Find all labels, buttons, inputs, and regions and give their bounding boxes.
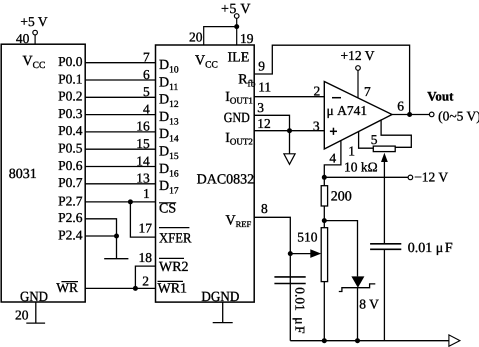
offset null pin 5 wire — [381, 120, 411, 147]
svg-text:+12 V: +12 V — [341, 48, 375, 63]
svg-text:P0.1: P0.1 — [58, 71, 82, 86]
wire VREF — [254, 217, 290, 253]
svg-text:P0.0: P0.0 — [58, 54, 83, 69]
svg-text:(0~5 V): (0~5 V) — [438, 108, 479, 123]
svg-text:11: 11 — [258, 79, 271, 94]
ground P2 lines — [104, 236, 128, 259]
wire 200 bottom — [323, 206, 325, 228]
output wire pin6 — [392, 114, 429, 116]
plus input sign — [330, 130, 337, 132]
wire P0.0-DI0 — [85, 62, 155, 64]
+5 V supply for DAC — [204, 14, 239, 45]
node +5V DAC — [234, 24, 239, 29]
svg-text:510: 510 — [297, 230, 318, 245]
wire P2.6 — [85, 219, 116, 236]
svg-text:WR: WR — [56, 280, 78, 295]
wire IOUT2 to op-amp pin3 — [254, 130, 324, 132]
wire junction to WR2 — [135, 266, 155, 288]
overline WR — [61, 281, 78, 283]
wire to pin 20 — [204, 27, 237, 45]
wire junction to XFER — [130, 202, 155, 237]
8031 box — [1, 44, 85, 302]
wire pin7 — [357, 70, 359, 98]
svg-text:18: 18 — [139, 250, 153, 265]
svg-text:DAC0832: DAC0832 — [197, 173, 255, 188]
svg-text:1: 1 — [348, 143, 355, 158]
analog ground arrow — [289, 131, 291, 154]
potentiometer 510 box — [321, 228, 327, 282]
zener diode 8V — [351, 276, 364, 287]
node 510/rail — [322, 338, 327, 343]
+5 V supply for 8031 pin 40 — [33, 30, 38, 44]
wire zener branch top — [324, 221, 357, 277]
svg-text:Vout: Vout — [427, 89, 454, 104]
wire cap C2 vertical — [383, 249, 385, 340]
svg-text:VREF: VREF — [226, 214, 252, 230]
svg-text:9: 9 — [258, 58, 265, 73]
svg-text:14: 14 — [136, 153, 150, 168]
svg-text:13: 13 — [136, 171, 150, 186]
svg-text:4: 4 — [329, 150, 336, 165]
svg-text:P0.3: P0.3 — [58, 106, 83, 121]
svg-text:P0.5: P0.5 — [58, 141, 83, 156]
svg-text:0.01 μF: 0.01 μF — [408, 241, 453, 256]
wire WR to WR1 — [85, 287, 155, 289]
ground 8031 pin 20 — [26, 302, 45, 323]
capacitor C1 0.01uF plates — [274, 277, 305, 284]
svg-text:WR2: WR2 — [159, 260, 189, 275]
svg-text:P2.7: P2.7 — [58, 193, 83, 208]
svg-text:0.01 μF: 0.01 μF — [293, 287, 308, 334]
wire op-amp pin4 to -12V rail — [324, 141, 341, 178]
wire — [236, 18, 238, 45]
wire P0.7-DI7 — [85, 183, 155, 185]
svg-text:2: 2 — [142, 274, 149, 289]
svg-text:D15: D15 — [159, 145, 179, 163]
svg-text:−12 V: −12 V — [414, 169, 448, 184]
wire P0.4-DI4 — [85, 131, 155, 133]
svg-text:2: 2 — [314, 83, 321, 98]
wire IOUT1 to op-amp pin2 — [254, 96, 324, 98]
rail arrow — [449, 335, 460, 346]
svg-text:VCC: VCC — [23, 54, 46, 71]
svg-text:IOUT2: IOUT2 — [225, 131, 253, 147]
node WR junction — [133, 286, 138, 291]
port labels P0.0-P0.7 — [56, 54, 82, 295]
wire VREF node down — [289, 254, 291, 341]
node P2.4 junction — [114, 234, 119, 239]
510 wiper arrow — [290, 253, 312, 255]
svg-text:12: 12 — [257, 116, 271, 131]
node P2.7/CS junction — [128, 199, 133, 204]
svg-text:3: 3 — [313, 118, 320, 133]
svg-text:XFER: XFER — [159, 232, 192, 247]
svg-text:15: 15 — [136, 136, 150, 151]
potentiometer wiper arrow — [383, 160, 385, 244]
svg-text:5: 5 — [143, 84, 150, 99]
potentiometer 10k box — [373, 146, 395, 152]
node 200/510/zener — [322, 218, 327, 223]
+12V supply — [356, 66, 361, 98]
wire P2.4 — [85, 235, 116, 237]
svg-text:D13: D13 — [159, 110, 179, 128]
terminal -12V — [408, 175, 413, 180]
svg-text:20: 20 — [15, 308, 29, 323]
svg-text:40: 40 — [16, 31, 30, 46]
svg-text:P2.6: P2.6 — [58, 210, 83, 225]
node zener/rail — [355, 338, 360, 343]
svg-text:Rfb: Rfb — [238, 72, 256, 89]
svg-text:VCC: VCC — [195, 54, 218, 71]
svg-text:3: 3 — [257, 100, 264, 115]
svg-text:DGND: DGND — [201, 290, 239, 305]
DAC0832 box — [156, 45, 255, 302]
svg-text:19: 19 — [240, 31, 254, 46]
svg-text:200: 200 — [331, 189, 352, 204]
svg-text:8 V: 8 V — [359, 297, 379, 312]
D input labels — [159, 58, 179, 197]
svg-text:10 kΩ: 10 kΩ — [344, 160, 378, 175]
svg-text:P0.7: P0.7 — [58, 175, 83, 190]
wire P0.3-DI3 — [85, 114, 155, 116]
wire P0.1-DI1 — [85, 79, 155, 81]
svg-text:μ A741: μ A741 — [327, 103, 368, 118]
svg-text:7: 7 — [364, 84, 371, 99]
wire P0.5-DI5 — [85, 148, 155, 150]
bottom rail — [290, 340, 449, 342]
svg-text:D10: D10 — [159, 58, 179, 76]
wire P0.2-DI2 — [85, 96, 155, 98]
wire 200 top — [323, 177, 325, 185]
offset null pin 1 wire — [359, 132, 374, 149]
svg-text:5: 5 — [371, 132, 378, 147]
minus input sign — [332, 97, 341, 99]
svg-text:16: 16 — [136, 119, 150, 134]
svg-text:20: 20 — [189, 30, 203, 45]
svg-text:ILE: ILE — [228, 51, 250, 66]
svg-text:D11: D11 — [159, 75, 179, 93]
svg-text:+5 V: +5 V — [20, 14, 47, 29]
wire Rfb feedback loop — [254, 45, 409, 114]
terminal +12V — [356, 66, 361, 71]
resistor 200 — [321, 186, 327, 206]
svg-text:P2.4: P2.4 — [58, 227, 83, 242]
svg-text:P0.6: P0.6 — [58, 158, 83, 173]
-12V rail — [324, 176, 408, 178]
wire — [34, 35, 36, 44]
node IOUT2/GND — [287, 128, 292, 133]
wire 510 bottom to rail — [323, 282, 325, 341]
wire GND pin3 of DAC — [254, 115, 289, 130]
node VREF/wiper — [288, 251, 293, 256]
svg-text:7: 7 — [143, 50, 150, 65]
node pin4/-12V — [322, 175, 327, 180]
svg-text:D17: D17 — [159, 179, 179, 197]
wire zener bottom — [357, 288, 359, 341]
svg-text:17: 17 — [139, 221, 153, 236]
svg-text:4: 4 — [143, 101, 150, 116]
svg-text:D12: D12 — [159, 93, 179, 111]
svg-text:GND: GND — [20, 290, 48, 305]
wire P0.6-DI6 — [85, 166, 155, 168]
svg-text:6: 6 — [397, 98, 404, 113]
svg-text:D14: D14 — [159, 127, 179, 145]
terminal +5V DAC — [234, 14, 239, 19]
svg-text:IOUT1: IOUT1 — [225, 90, 253, 106]
pin numbers for D inputs — [136, 50, 152, 289]
svg-text:D16: D16 — [159, 162, 179, 180]
svg-text:GND: GND — [224, 111, 250, 126]
svg-text:WR1: WR1 — [158, 281, 188, 296]
svg-text:P0.2: P0.2 — [58, 89, 82, 104]
terminal +5V 8031 — [33, 30, 38, 35]
node output — [407, 112, 412, 117]
op-amp U1 triangle — [324, 82, 392, 150]
svg-text:6: 6 — [143, 67, 150, 82]
svg-text:1: 1 — [143, 186, 150, 201]
terminal Vout — [429, 112, 434, 117]
svg-text:CS: CS — [159, 202, 176, 217]
wire P2.7 to CS — [85, 201, 155, 203]
data bus wires P0.x to D-inputs — [85, 63, 155, 184]
svg-text:8: 8 — [261, 201, 268, 216]
svg-text:8031: 8031 — [9, 167, 37, 182]
svg-text:+5 V: +5 V — [221, 2, 251, 17]
capacitor C2 0.01uF plates — [370, 244, 401, 250]
ground DGND — [213, 302, 233, 323]
svg-text:P0.4: P0.4 — [58, 123, 83, 138]
